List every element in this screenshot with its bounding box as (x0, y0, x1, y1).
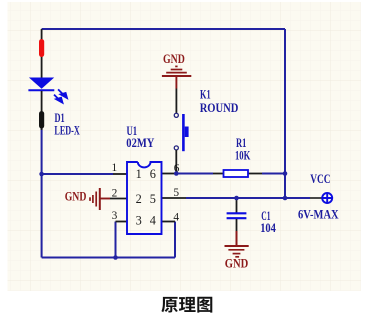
GND bottom symbol (225, 246, 249, 257)
VCC power port circle (322, 193, 332, 203)
VCC cross (323, 193, 332, 202)
wire top (42, 28, 285, 30)
svg-text:4: 4 (173, 212, 179, 224)
switch K1 lead top (175, 89, 177, 114)
wire left vertical (41, 128, 43, 258)
wire bottom (42, 257, 175, 259)
GND bottom stem (236, 231, 238, 245)
capacitor C1 plates (227, 213, 247, 218)
IC U1 pin1 stub (113, 173, 127, 175)
junction dot VCC row (283, 196, 288, 201)
diode D1 pin end red (39, 39, 44, 57)
svg-text:104: 104 (260, 221, 276, 235)
GND left symbol (90, 188, 110, 210)
IC U1 pin5 stub (162, 197, 186, 199)
svg-text:2: 2 (136, 192, 142, 206)
IC U1 body (127, 162, 162, 234)
switch K1 terminal circle bottom (174, 146, 178, 150)
wire right vertical (284, 29, 286, 198)
switch K1 lead bottom (175, 150, 177, 174)
title 原理图 (161, 297, 212, 313)
svg-text:4: 4 (150, 214, 156, 228)
svg-text:3: 3 (112, 210, 118, 222)
svg-text:6V-MAX: 6V-MAX (298, 208, 339, 222)
svg-text:GND: GND (65, 190, 87, 204)
junction dot pin3 bottom (113, 255, 118, 260)
IC U1 pin3 stub (116, 221, 128, 223)
svg-text:K1: K1 (200, 88, 211, 102)
svg-text:ROUND: ROUND (200, 101, 239, 115)
LED D1 emission arrow 2 (54, 95, 63, 103)
wire pin5 row (186, 197, 285, 199)
svg-text:LED-X: LED-X (54, 123, 79, 137)
wire pin1 (42, 173, 113, 175)
svg-text:3: 3 (136, 214, 142, 228)
svg-text:02MY: 02MY (126, 136, 154, 150)
switch K1 terminal circle top (174, 113, 178, 117)
LED D1 triangle (29, 78, 54, 89)
LED D1 cathode bar (28, 89, 54, 91)
diode D1 lead top (41, 29, 43, 78)
GND top symbol (162, 66, 191, 88)
VCC pin lead (310, 197, 322, 199)
svg-text:GND: GND (225, 257, 249, 271)
junction dot pin1 (39, 172, 44, 177)
resistor R1 left lead (213, 173, 224, 175)
LED D1 lead bottom (41, 91, 43, 130)
svg-text:VCC: VCC (310, 172, 330, 186)
wire pin3 vertical (115, 222, 117, 258)
svg-text:GND: GND (163, 52, 185, 66)
IC U1 pin6 stub (162, 173, 176, 175)
LED D1 pin end black (39, 111, 44, 129)
svg-text:1: 1 (136, 167, 142, 181)
junction dot switch to R1 (174, 171, 179, 176)
svg-text:10K: 10K (235, 148, 250, 162)
svg-text:1: 1 (112, 162, 118, 174)
capacitor C1 bottom lead (236, 219, 238, 231)
junction dot C1 top (234, 196, 239, 201)
resistor R1 right lead (248, 173, 262, 175)
svg-text:2: 2 (112, 187, 118, 199)
wire node to VCC (285, 197, 310, 199)
resistor R1 body (224, 170, 249, 177)
IC U1 pin2 stub (110, 198, 127, 200)
junction dot R1 right (283, 171, 288, 176)
svg-text:5: 5 (150, 192, 156, 206)
wire R1 to right node (262, 173, 285, 175)
svg-text:6: 6 (150, 167, 156, 181)
switch K1 actuator button (185, 127, 189, 138)
svg-text:5: 5 (173, 187, 179, 199)
wire pin4 vertical (174, 222, 176, 258)
wire K1 node to R1 (176, 173, 213, 175)
IC U1 pin4 stub (162, 221, 175, 223)
switch K1 actuator bar (182, 114, 185, 151)
capacitor C1 top lead (236, 198, 238, 213)
LED D1 emission arrow 1 (58, 89, 67, 98)
